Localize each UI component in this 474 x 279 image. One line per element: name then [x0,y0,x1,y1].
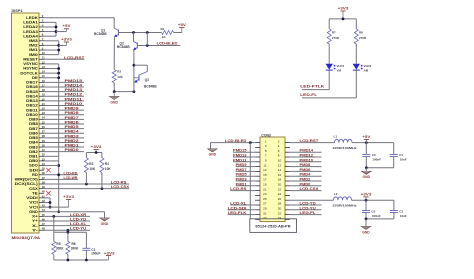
svg-text:PMD0: PMD0 [65,148,79,152]
svg-text:35: 35 [42,167,46,171]
svg-text:CSX: CSX [29,187,39,191]
svg-text:PMD6: PMD6 [300,168,311,172]
svg-text:19: 19 [263,183,267,187]
svg-text:13: 13 [263,168,267,172]
svg-text:DB4: DB4 [29,141,38,145]
svg-text:PMD0: PMD0 [300,182,311,186]
svg-text:GND: GND [363,175,371,179]
svg-text:LCD-YU: LCD-YU [300,206,317,210]
svg-text:220R/100MHz: 220R/100MHz [333,204,358,208]
svg-text:SDO: SDO [29,164,38,168]
resistor R2 12K [112,69,123,91]
capacitor C1b 10nF [366,143,407,168]
power +3V3 (VDDI/VCI) [63,195,74,207]
svg-text:PMD11: PMD11 [65,97,83,101]
svg-text:RESET: RESET [23,57,39,61]
wire SDO to tie-down [44,165,59,167]
svg-text:C2: C2 [399,209,403,213]
wire touch bias top rail [54,216,87,233]
svg-text:PMD6: PMD6 [65,120,79,124]
svg-text:C1: C1 [399,153,403,157]
svg-text:DB0: DB0 [29,159,38,163]
svg-text:32: 32 [278,211,282,215]
wire CON3 pin3 ground + vertical to pin25 [211,139,256,219]
power +3V3 (pull-ups) [91,145,102,153]
svg-text:DB15: DB15 [26,90,38,94]
svg-text:31: 31 [263,211,267,215]
svg-text:270R: 270R [359,36,367,40]
svg-text:LCD-RST: LCD-RST [64,56,84,60]
wire LCD-WR net [44,176,78,180]
svg-text:28: 28 [278,202,282,206]
power +5V (filtered) [362,135,371,144]
svg-text:10: 10 [278,159,282,163]
wire LCD-RS net (DCX) with R3 pull-up [44,181,129,186]
LED VLD1 YE [326,44,345,73]
svg-text:LCD-CSX: LCD-CSX [300,187,320,191]
svg-text:BC848B: BC848B [94,32,107,36]
capacitor C4 100nF [362,200,381,219]
power +3V3 (touch bias) [104,251,115,255]
wire Q2 emitter down [133,50,136,92]
svg-text:PMD9: PMD9 [236,163,247,167]
svg-text:VCI: VCI [29,205,38,209]
svg-text:IM1: IM1 [29,48,38,52]
svg-text:PMD4: PMD4 [65,130,79,134]
svg-text:23: 23 [263,192,267,196]
svg-text:MI0283QT-9A: MI0283QT-9A [12,236,41,240]
resistor R3 10K pull-up [84,153,95,185]
resistor R5 300K touch bias [52,232,64,260]
svg-text:LCD-RS: LCD-RS [230,187,246,191]
svg-text:+3V3: +3V3 [63,195,74,199]
power +3V3 (LED indicators) [338,6,349,19]
svg-text:DB1: DB1 [29,155,38,159]
wire Q1 base to Q2 collector [134,33,138,44]
wire LCD-RD net (RD) with tie-down dot [44,171,78,176]
svg-text:+5V: +5V [62,24,71,28]
svg-text:X+: X+ [32,215,38,219]
svg-text:25: 25 [263,197,267,201]
svg-text:LCD-YD: LCD-YD [300,202,317,206]
wire touch bias bottom rail to +3V3 [54,256,109,262]
svg-text:+5V: +5V [178,23,187,27]
svg-text:24: 24 [278,192,282,196]
svg-text:PMD10: PMD10 [300,158,314,162]
svg-text:HSYNC: HSYNC [23,67,38,71]
resistor R1 1K [161,27,182,39]
svg-text:LCD-RST: LCD-RST [300,139,319,143]
svg-text:DB13: DB13 [26,99,38,103]
svg-text:PMD7: PMD7 [236,168,247,172]
power +5V (backlight) [178,23,187,28]
no-connect X on SDI [46,168,50,172]
svg-text:DB3: DB3 [29,145,38,149]
svg-text:LCD-XL: LCD-XL [230,202,246,206]
wire Q3 collector loop [134,65,147,75]
wire LCD-RST net from RESET pin [44,56,85,60]
ground (Q cluster) [110,92,119,105]
svg-text:300K: 300K [71,246,79,250]
svg-text:12: 12 [278,163,282,167]
svg-text:10nF: 10nF [400,158,407,162]
wire LEDK net to Q1 collector [44,18,114,29]
ground (module GND) [100,218,109,226]
wire Q1 emitter to R2 [113,37,115,70]
svg-text:DB11: DB11 [26,108,38,112]
wire VSYNC/HSYNC/DOTCLK/DE/SDO/RD tie-down vertical to GND pin [44,64,60,213]
svg-text:R1: R1 [161,27,165,31]
svg-text:PMD1: PMD1 [236,182,247,186]
svg-text:LCD-BLED: LCD-BLED [157,42,179,46]
wires DB17-DB2 data nets PMD15-PMD0 [44,79,84,152]
svg-text:LCD-BLED: LCD-BLED [225,139,248,143]
svg-text:R5: R5 [56,242,60,246]
ground (CON3) [208,149,217,157]
wire 3V3 filter rail [290,199,394,201]
svg-text:PMD13: PMD13 [65,88,83,92]
svg-text:DISP1: DISP1 [12,9,23,13]
svg-text:IM2: IM2 [29,44,38,48]
svg-text:PMD2: PMD2 [300,178,311,182]
transistor Q2 BC848B [117,41,137,50]
svg-text:Q3: Q3 [145,78,149,82]
svg-text:LCD-CSX: LCD-CSX [111,185,130,189]
svg-text:220R/100MHz: 220R/100MHz [333,146,358,150]
svg-text:IM3: IM3 [29,39,38,43]
svg-text:R4: R4 [105,162,109,166]
svg-text:DB7: DB7 [29,127,38,131]
wire DB1 stub [44,155,59,157]
svg-text:SDI: SDI [29,168,38,172]
inductor L2 220R/100MHz [333,192,358,207]
svg-text:VLD1: VLD1 [337,64,345,68]
svg-text:PMD14: PMD14 [300,149,314,153]
svg-text:L2: L2 [334,192,338,196]
wire emitter rail bottom [113,90,136,93]
svg-text:30: 30 [278,207,282,211]
wires CON3 left side nets [228,149,256,215]
svg-text:VSYNC: VSYNC [23,62,38,66]
svg-text:DB14: DB14 [26,94,38,98]
svg-text:LCD-XL: LCD-XL [70,222,86,226]
svg-text:27: 27 [263,202,267,206]
svg-text:+3V3: +3V3 [91,145,102,149]
svg-text:14: 14 [278,168,282,172]
svg-text:GND: GND [362,230,370,234]
svg-text:BC848B: BC848B [144,84,157,88]
power +3V3 (filtered) [361,192,372,201]
svg-text:LEDA4: LEDA4 [23,34,38,38]
wire Y- touch net LCD-YU [44,227,90,232]
connector CON3 [250,133,297,232]
svg-text:100nF: 100nF [372,158,381,162]
svg-text:+3V3: +3V3 [104,251,115,255]
svg-text:YM: YM [337,69,342,73]
svg-text:PMD8: PMD8 [300,163,311,167]
svg-text:+3V3: +3V3 [361,192,372,196]
wire LCD-BLED net from Q2 base [137,33,180,47]
svg-text:PMD11: PMD11 [233,158,247,162]
svg-text:100uF: 100uF [91,252,100,256]
svg-text:BC848B: BC848B [117,45,130,49]
svg-text:DOTCLK: DOTCLK [20,71,38,75]
svg-text:LEDK: LEDK [26,16,38,20]
svg-text:33: 33 [263,216,267,220]
svg-text:LEDA1: LEDA1 [23,21,38,25]
svg-text:LCD-XR: LCD-XR [70,213,87,217]
svg-text:LEDA3: LEDA3 [23,30,38,34]
svg-text:+5V: +5V [362,135,371,139]
svg-text:C4: C4 [371,209,375,213]
resistor R4 10K pull-up [100,153,111,189]
svg-text:11: 11 [263,163,266,167]
svg-text:PMD12: PMD12 [300,154,314,158]
svg-text:R6: R6 [72,242,76,246]
svg-text:DB2: DB2 [29,150,38,154]
svg-text:PMD15: PMD15 [233,149,247,153]
svg-text:16: 16 [278,173,282,177]
svg-text:R8: R8 [359,30,363,34]
LED VLD2 AM [353,44,372,73]
svg-text:DB8: DB8 [29,122,38,126]
svg-text:LCD-RS: LCD-RS [111,181,127,185]
svg-text:X-: X- [32,224,38,228]
svg-text:VLD2: VLD2 [364,64,372,68]
ground (5V filter) [362,166,371,179]
svg-text:22: 22 [278,187,282,191]
svg-text:VDDI: VDDI [26,196,38,200]
svg-text:29: 29 [263,207,267,211]
svg-text:85124-2520-AB-PR: 85124-2520-AB-PR [255,225,291,229]
wire LED-FTLK net [300,70,329,90]
capacitor C2 10nF [366,200,407,219]
svg-text:Y-: Y- [32,228,38,232]
wire LED supply rail [329,18,356,29]
svg-text:PMD13: PMD13 [233,154,247,158]
svg-text:GND: GND [101,222,109,226]
wire LEDA1-LEDA4 bus to +5V [44,22,66,36]
svg-text:DB10: DB10 [26,113,38,117]
svg-text:DB5: DB5 [29,136,38,140]
svg-text:WR(D/CX): WR(D/CX) [15,178,38,182]
svg-text:PMD4: PMD4 [300,173,311,177]
svg-text:10nF: 10nF [400,214,407,218]
wire LED-FL net (from VLD2) [300,70,356,98]
svg-text:PMD1: PMD1 [65,144,79,148]
svg-text:DB16: DB16 [26,85,38,89]
svg-text:PMD7: PMD7 [65,116,79,120]
svg-text:PMD14: PMD14 [65,84,83,88]
resistor R6 300K touch bias [66,232,79,260]
svg-text:LCD-YU: LCD-YU [70,227,87,231]
svg-text:26: 26 [278,197,282,201]
svg-text:LEDA2: LEDA2 [23,25,38,29]
svg-text:DB17: DB17 [26,81,38,85]
svg-text:DB9: DB9 [29,118,38,122]
svg-text:R2: R2 [117,69,121,73]
wire Q1 base rail to R1 [118,31,161,34]
svg-text:300K: 300K [56,246,64,250]
svg-text:40: 40 [42,190,46,194]
svg-text:PMD10: PMD10 [65,102,83,106]
wire LCD-CSX net (CSX) with R4 pull-up [44,185,130,190]
inductor L1 220R/100MHz [333,135,358,150]
svg-text:270R: 270R [332,36,340,40]
wires CON3 right side nets [290,149,322,215]
svg-text:GND: GND [110,100,118,104]
wire DB0 stub [44,160,59,162]
wire GND pin to ground [44,212,105,218]
svg-text:TE: TE [32,191,39,195]
wire IM3-IM0 bus to +3V3 [44,41,66,55]
svg-text:LED-FLK: LED-FLK [228,211,248,215]
svg-text:Y+: Y+ [32,219,38,223]
DISP1 pins with names and numbers [15,14,46,232]
svg-text:R3: R3 [89,162,93,166]
wire X- touch net LCD-XL [44,222,90,226]
svg-text:PMD9: PMD9 [65,107,79,111]
power +3V3 (IM pins) [61,37,72,45]
svg-text:17: 17 [263,178,267,182]
svg-text:LED-FTLK: LED-FTLK [300,84,325,88]
svg-text:PMD5: PMD5 [236,173,247,177]
capacitor C1 100uF touch filter [82,232,100,260]
svg-text:100nF: 100nF [372,214,381,218]
svg-text:LCD-YD: LCD-YD [70,217,87,221]
svg-text:DE: DE [32,76,39,80]
svg-text:PMD15: PMD15 [65,79,83,83]
wire VDDI/VCI supply bus [44,198,69,209]
svg-text:IM0: IM0 [29,53,38,57]
svg-text:PMD3: PMD3 [65,134,79,138]
svg-text:LCD-SDI: LCD-SDI [228,206,247,210]
svg-text:RD: RD [32,173,38,177]
power +5V (LED anodes) [62,24,71,31]
svg-text:VCI: VCI [29,201,38,205]
resistor R8 270R [354,29,367,44]
capacitor C3 100nF [362,143,381,168]
svg-text:21: 21 [263,187,267,191]
svg-text:DB12: DB12 [26,104,38,108]
svg-text:LCD-WR: LCD-WR [64,176,79,180]
wire 5V filter rail [290,139,394,143]
LCD module DISP1 MI0283QT-9A [12,9,41,240]
no-connect X on TE [46,191,50,195]
svg-text:DB6: DB6 [29,131,38,135]
transistor Q1 BC848B [94,28,118,37]
svg-text:LCD-RD: LCD-RD [64,171,79,175]
svg-text:12K: 12K [117,75,123,79]
svg-text:+3V3: +3V3 [61,37,72,41]
transistor Q3 BC848B [134,75,157,89]
svg-text:PMD5: PMD5 [65,125,79,129]
svg-text:+3V3: +3V3 [338,6,349,10]
wire pull-up top rail [86,151,102,154]
svg-text:AM: AM [364,69,369,73]
wire Y+ touch net LCD-YD [44,217,90,221]
svg-text:DCX(SCL): DCX(SCL) [15,182,38,186]
svg-text:10K: 10K [89,167,96,171]
svg-text:20: 20 [278,183,282,187]
wire X+ touch net LCD-XR [44,213,90,218]
svg-text:34: 34 [278,216,282,220]
svg-text:PMD2: PMD2 [65,139,79,143]
svg-text:L1: L1 [334,135,338,139]
svg-text:PMD3: PMD3 [236,178,247,182]
svg-text:10K: 10K [105,167,112,171]
resistor R7 270R [327,29,340,44]
svg-text:18: 18 [278,178,282,182]
svg-text:LED-FL: LED-FL [300,93,317,97]
svg-text:PMD8: PMD8 [65,111,79,115]
svg-text:GND: GND [29,210,38,214]
ground (3V3 filter) [361,218,370,235]
svg-text:C3: C3 [372,153,376,157]
svg-text:PMD12: PMD12 [65,93,83,97]
svg-text:LED-FL: LED-FL [300,211,316,215]
svg-text:R7: R7 [332,30,336,34]
svg-text:GND: GND [209,153,217,157]
svg-text:15: 15 [263,173,267,177]
